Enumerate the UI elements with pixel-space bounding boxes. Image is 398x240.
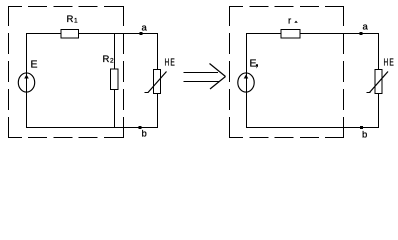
svg-text:H: H bbox=[165, 56, 170, 68]
svg-text:a: a bbox=[363, 22, 369, 33]
svg-text:H: H bbox=[384, 56, 389, 68]
svg-text:E: E bbox=[170, 56, 175, 68]
svg-text:1: 1 bbox=[74, 18, 78, 25]
svg-text:a: a bbox=[142, 23, 148, 34]
svg-text:R: R bbox=[103, 54, 110, 65]
svg-text:E: E bbox=[389, 56, 394, 68]
svg-text:r: r bbox=[288, 16, 291, 27]
svg-text:E: E bbox=[31, 59, 38, 71]
svg-text:b: b bbox=[362, 130, 367, 141]
svg-text:b: b bbox=[142, 129, 147, 140]
svg-text:E: E bbox=[250, 58, 257, 70]
svg-text:2: 2 bbox=[110, 58, 114, 65]
svg-text:R: R bbox=[67, 14, 74, 25]
